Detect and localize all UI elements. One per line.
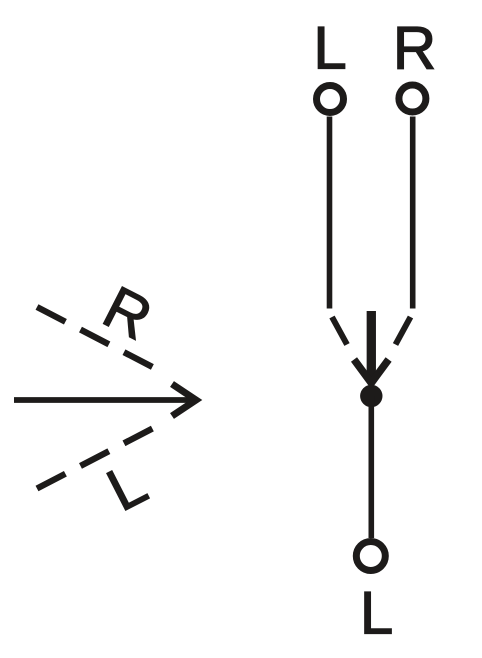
switch actuator arrow shaft (thick, pointing down): [367, 311, 376, 379]
terminal R (top-right open circle): [399, 85, 426, 112]
svg-text:L: L: [313, 15, 346, 82]
switch throw contact dash (left, toward junction): [332, 317, 347, 345]
terminal L (bottom open circle): [356, 542, 385, 571]
switch throw contact dash (right, toward junction): [396, 317, 411, 345]
junction dot (common pole node): [360, 385, 382, 407]
svg-text:L: L: [97, 449, 157, 524]
switch actuator arrowhead: [354, 360, 389, 384]
dashed throw position R (upper-left arm): [37, 307, 153, 367]
dashed throw position L (lower-left arm): [37, 429, 153, 489]
svg-text:R: R: [393, 15, 436, 82]
selector arrow (solid, pointing right): [14, 397, 198, 403]
wire from terminal L down: [327, 117, 333, 309]
svg-text:L: L: [360, 580, 393, 647]
wire from junction to bottom terminal: [368, 396, 374, 538]
terminal L (top-left open circle): [317, 86, 344, 113]
wire from terminal R down: [410, 117, 416, 309]
selector arrowhead: [172, 384, 196, 416]
